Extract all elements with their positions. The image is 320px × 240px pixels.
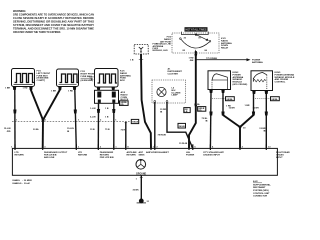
fuse F1/2: [57, 69, 79, 90]
arrow wire to power antenna: [197, 58, 251, 61]
wire W2 fuse F1/2 right to radio pin: [75, 90, 77, 149]
wire K29/5 right to radio: [265, 94, 267, 148]
svg-text:/RD: /RD: [7, 131, 11, 133]
svg-text:SYSTEM (SRS): SYSTEM (SRS): [253, 190, 269, 192]
ground pin tick: [140, 177, 143, 179]
wire label 74 BR/B: [259, 127, 266, 133]
power antenna K29/5: [251, 71, 273, 94]
svg-text:RETURN: RETURN: [127, 154, 137, 156]
svg-text:GELB: GELB: [179, 126, 185, 128]
relay K1/3 dashed housing: [172, 33, 219, 53]
svg-text:15 RL/B: 15 RL/B: [179, 143, 188, 145]
svg-text:CONTROL UNIT: CONTROL UNIT: [253, 193, 270, 195]
svg-text:HOT AT ALL TIMES: HOT AT ALL TIMES: [186, 29, 207, 32]
instrument cluster A1 dashed housing: [152, 80, 186, 103]
svg-text:AMPLIFIER BLANKET: AMPLIFIER BLANKET: [146, 151, 170, 154]
connector block A1: [95, 90, 119, 103]
instrument cluster label: [168, 68, 183, 76]
svg-text:/BK: /BK: [190, 60, 194, 62]
radio label LTD RETURN: [15, 152, 25, 157]
svg-text:CONNECTOR: CONNECTOR: [253, 196, 267, 198]
svg-text:GELB: GELB: [132, 122, 138, 124]
radio label ANT SENS: [139, 151, 145, 157]
radio pin ticks: [15, 144, 266, 150]
svg-text:BOX: BOX: [120, 80, 125, 82]
dashed leader K29/5: [255, 98, 270, 100]
K29/5 label: [275, 72, 295, 84]
SRS note block: [253, 180, 271, 198]
wire K29/2 right vertical then diagonal to node J3: [222, 93, 224, 112]
fuse F1/2 label: [81, 71, 97, 82]
fuse F1/1 label: [37, 71, 51, 83]
svg-text:MODULE, LHD: MODULE, LHD: [153, 50, 169, 52]
svg-text:15 BR: 15 BR: [229, 108, 236, 110]
power antenna arrow label: [252, 59, 263, 64]
svg-text:CHASSIS INPUT: CHASSIS INPUT: [203, 153, 221, 156]
svg-text:SUPPLEMENTAL: SUPPLEMENTAL: [253, 183, 271, 186]
fuse F1/3 label: [120, 71, 131, 83]
connector code GE left: [184, 108, 190, 114]
svg-text:RD: RD: [120, 104, 124, 106]
wire label 1 RD/BK: [189, 57, 194, 62]
svg-text:WARNING:: WARNING:: [13, 9, 26, 13]
svg-text:TERMINAL AND DISCONNECT THE SR: TERMINAL AND DISCONNECT THE SRS. 10 MIN …: [13, 27, 94, 31]
svg-text:1 BR: 1 BR: [245, 105, 250, 107]
wire label 15 RD/B: [160, 109, 167, 114]
relay K1/3 left label: [156, 37, 171, 46]
antenna module F1/8: [134, 44, 148, 54]
relay K1/3 right label: [221, 38, 232, 50]
wire W1 fuse F1/1 left to radio pin 1: [14, 90, 16, 149]
wire K29/5 left vertical then diagonal to node J3: [253, 94, 255, 112]
svg-text:GE/BL: GE/BL: [271, 99, 278, 101]
wire node J3 to radio: [239, 127, 241, 148]
pin digits above dashed line: [16, 120, 117, 122]
node J1: [42, 119, 45, 122]
svg-text:15 B: 15 B: [90, 129, 95, 131]
connector code GE/BL K29/5: [271, 97, 280, 101]
relay contacts: [180, 32, 211, 54]
svg-text:1 RD: 1 RD: [68, 91, 73, 93]
radio pin digits: [11, 146, 271, 149]
node J2: [195, 53, 198, 56]
svg-text:GROUND: GROUND: [136, 173, 147, 175]
svg-text:CONTROL: CONTROL: [275, 82, 286, 84]
svg-text:1-LIN: 1-LIN: [90, 108, 96, 110]
svg-text:LAMP: LAMP: [172, 94, 179, 97]
svg-text:75 R: 75 R: [121, 130, 126, 132]
svg-text:75 B: 75 B: [105, 129, 110, 131]
svg-text:INPUT: INPUT: [276, 157, 283, 159]
wire F1/1 right diagonal to node J1: [31, 90, 43, 121]
wire cluster right bends to radio: [167, 102, 193, 148]
cable legend: [13, 179, 33, 185]
wire cluster left to radio: [154, 102, 156, 148]
svg-text:1 B: 1 B: [105, 108, 109, 110]
svg-text:A1/2: A1/2: [253, 180, 258, 183]
warning note: [13, 9, 94, 34]
connector code GELB: [131, 119, 138, 123]
tick on W5: [125, 122, 128, 124]
dashed connector line C1: [12, 121, 131, 123]
svg-text:SERVING, DISTURBING OR DISABLI: SERVING, DISTURBING OR DISABLING ANY PAR…: [13, 20, 94, 24]
connector code GE/BL: [120, 101, 129, 106]
wire label 15-LIN/B: [67, 128, 74, 133]
svg-text:RETURN: RETURN: [78, 154, 88, 156]
svg-text:FDR LPR B/B: FDR LPR B/B: [100, 157, 114, 159]
connector code GELB at bend: [178, 123, 186, 128]
svg-text:CAUSE SEVERE INJURY IF ACCIDEN: CAUSE SEVERE INJURY IF ACCIDENTLY DETONA…: [13, 16, 94, 20]
node J3: [239, 126, 242, 129]
svg-text:MODULE LHD: MODULE LHD: [156, 44, 171, 46]
node on W3: [97, 109, 100, 113]
svg-text:SRS COMPONENTS ARE TO OVERCHAR: SRS COMPONENTS ARE TO OVERCHARGE DEVICES…: [13, 13, 94, 17]
connector code GE/BL K29/2: [226, 97, 235, 101]
wire label 75 BL/B: [202, 118, 209, 123]
svg-text:30 BK: 30 BK: [133, 190, 140, 192]
wire W5 to radio pin: [125, 122, 127, 149]
lamp label: [172, 88, 181, 97]
wire F1/2 left diagonal to node J1: [43, 90, 60, 121]
svg-text:15-LIN: 15-LIN: [67, 128, 74, 130]
radio label PASSENGER RETURN: [100, 151, 114, 159]
svg-text:1 BR: 1 BR: [51, 91, 56, 93]
svg-text:CLUSTER: CLUSTER: [168, 73, 179, 75]
radio label PASSENGER OUTPUT: [44, 151, 68, 159]
radio label CITY STALKER: [203, 151, 224, 157]
fuse F1/3: [95, 69, 119, 91]
power antenna K29/2: [208, 71, 231, 93]
svg-text:1 B: 1 B: [105, 117, 109, 119]
svg-text:KABELS : 30+M: KABELS : 30+M: [13, 182, 30, 185]
svg-text:RESTRAINT: RESTRAINT: [253, 186, 266, 189]
svg-text:CREATED UNDER THE THIRD TO EXP: CREATED UNDER THE THIRD TO EXPIRED.: [13, 30, 61, 34]
radio amplifier unit A1/2: [12, 148, 277, 175]
svg-text:30 BL: 30 BL: [194, 104, 201, 106]
svg-text:LB: LB: [185, 111, 188, 113]
svg-text:30 BL: 30 BL: [33, 129, 40, 131]
svg-text:AND LINE: AND LINE: [44, 156, 55, 159]
connector block label: [121, 91, 129, 101]
fuse F1/1: [12, 69, 35, 91]
coax wire antenna to radio: [141, 54, 151, 148]
K29/2 label: [233, 72, 248, 86]
radio label LTD RETURN 2: [78, 152, 88, 157]
radio label LBL POWER: [186, 152, 195, 157]
svg-text:ANTENNA: ANTENNA: [252, 61, 263, 64]
wire W3 connector left to radio pin: [97, 103, 99, 148]
svg-text:1 B: 1 B: [130, 60, 134, 62]
svg-text:(W/O CRUISE): (W/O CRUISE): [233, 84, 248, 86]
svg-text:RELAY: RELAY: [221, 47, 229, 50]
svg-text:SYSTEM, DISCONNECT AND COVER T: SYSTEM, DISCONNECT AND COVER THE NEGATIV…: [13, 23, 94, 27]
chassis ground G1: [137, 199, 150, 204]
svg-text:5-LIN: 5-LIN: [90, 117, 96, 119]
svg-text:COMPT): COMPT): [37, 80, 46, 82]
svg-text:SENS: SENS: [139, 154, 145, 156]
node on relay wire: [195, 104, 197, 106]
radio label ANT LINE: [127, 151, 138, 157]
wire W4 connector right to radio pin: [113, 103, 115, 148]
relay output wire: [189, 51, 196, 148]
svg-text:RD: RD: [198, 110, 202, 112]
connector code GE right: [198, 107, 206, 112]
svg-text:1 RD: 1 RD: [23, 88, 28, 90]
svg-text:GE/BL: GE/BL: [226, 99, 233, 101]
cluster terminal circles: [154, 101, 156, 103]
svg-text:RETURN: RETURN: [15, 154, 25, 156]
svg-text:POWER: POWER: [186, 154, 195, 156]
illumination lamp L6: [157, 87, 166, 96]
tick on coax: [139, 59, 143, 61]
svg-text:15 BR: 15 BR: [253, 108, 260, 110]
fuse F1/3 left label: [89, 76, 94, 82]
svg-text:1 BR: 1 BR: [5, 88, 10, 90]
wire label 15-LIN/RD: [4, 128, 11, 133]
wire node J1 to radio pin 3: [42, 120, 44, 148]
wire K29/2 left to radio: [209, 93, 212, 148]
hot at all times bar: [185, 27, 208, 31]
node on W4: [112, 109, 115, 113]
ground wire: [140, 175, 142, 200]
ground distributor symbol: [136, 159, 146, 169]
radio label RIGHT REAR: [276, 151, 290, 159]
antenna module label: [153, 44, 169, 53]
svg-text:78 RD/B: 78 RD/B: [158, 135, 167, 137]
svg-text:775 RD/BK: 775 RD/BK: [206, 58, 218, 60]
svg-text:KABEL : 30 MM2: KABEL : 30 MM2: [13, 179, 33, 182]
svg-text:15-LIN: 15-LIN: [4, 128, 11, 130]
dashed leader K29/2: [212, 98, 225, 100]
